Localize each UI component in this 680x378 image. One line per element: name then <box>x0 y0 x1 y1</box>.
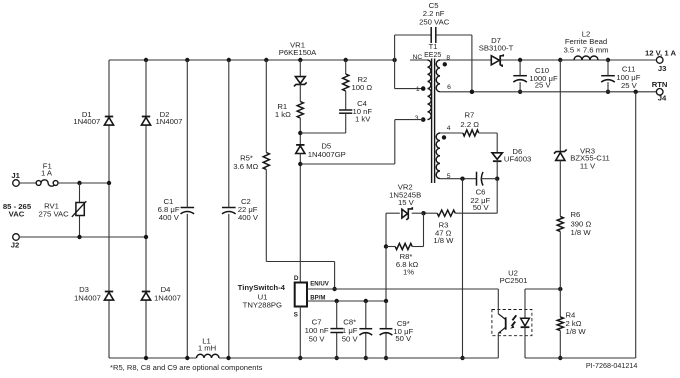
wire VR3 to R6 <box>559 160 561 216</box>
label D6 <box>504 147 531 163</box>
svg-text:4: 4 <box>447 125 451 132</box>
capacitor C10 <box>513 76 527 82</box>
wire RV1 top <box>79 183 81 203</box>
label pin 3 <box>415 115 419 122</box>
wire C5 right <box>436 35 474 94</box>
label C2 <box>238 197 259 222</box>
zener VR1 <box>294 77 307 87</box>
svg-text:25 V: 25 V <box>535 81 552 90</box>
wire R4 bottom <box>558 331 562 361</box>
label pin 1 <box>416 86 420 93</box>
svg-text:400 V: 400 V <box>238 213 259 222</box>
svg-text:R7: R7 <box>464 111 474 120</box>
wire opto collector <box>497 289 499 314</box>
svg-text:15 V: 15 V <box>398 198 415 207</box>
svg-text:3.5 × 7.6 mm: 3.5 × 7.6 mm <box>563 45 608 54</box>
wire RTN downline <box>635 92 637 358</box>
wire VR1 to R1 <box>299 84 301 101</box>
svg-text:100 Ω: 100 Ω <box>351 83 372 92</box>
diode D4 <box>141 292 150 301</box>
label input voltage <box>3 202 32 219</box>
svg-text:12 V, 1 A: 12 V, 1 A <box>645 48 677 57</box>
wire LED anode line <box>525 287 563 291</box>
label R5 <box>233 154 258 171</box>
node bias phase dot <box>442 135 446 139</box>
label C6 <box>470 187 490 212</box>
svg-text:SB3100-T: SB3100-T <box>479 44 514 53</box>
svg-text:3: 3 <box>415 115 419 122</box>
svg-text:1N4007: 1N4007 <box>74 294 101 303</box>
capacitor C5 <box>431 27 436 43</box>
wire pin8 to D7 <box>440 59 491 61</box>
diode D2 <box>141 117 150 126</box>
label C8 <box>342 317 359 343</box>
label U2 <box>500 268 528 285</box>
node secondary phase dot <box>443 62 447 66</box>
label pin 4 <box>447 125 451 132</box>
wire C1 branch <box>186 60 188 358</box>
label C7 <box>305 317 329 343</box>
wire C10 top <box>519 60 521 76</box>
wire R5 to EN/UV <box>266 170 337 292</box>
label U1 <box>238 283 286 310</box>
svg-text:UF4003: UF4003 <box>504 155 531 164</box>
wire C9 branch <box>384 301 388 360</box>
diode D3 <box>104 292 113 301</box>
svg-text:R6: R6 <box>571 210 581 219</box>
label R6 <box>571 210 592 237</box>
wire bias return <box>460 179 464 360</box>
capacitor C11 <box>601 76 615 82</box>
svg-text:RTN: RTN <box>652 80 668 89</box>
capacitor C4 <box>339 110 352 113</box>
wire VR1 top <box>299 60 301 77</box>
svg-text:S: S <box>294 311 299 318</box>
wire D2-D4 leg <box>145 60 147 358</box>
wire S pin <box>298 307 302 361</box>
svg-text:D: D <box>294 275 299 282</box>
svg-text:T1: T1 <box>429 42 438 51</box>
resistor R3 <box>437 210 455 216</box>
svg-text:1/8 W: 1/8 W <box>566 327 587 336</box>
wire bottom bus left <box>109 356 197 360</box>
wire pin4 to R7 <box>440 132 463 134</box>
ic U1 TNY288PG <box>295 283 307 307</box>
label D1 <box>73 110 100 126</box>
diode D7 SB3100-T <box>491 54 503 67</box>
capacitor C1 <box>181 208 195 214</box>
svg-text:1N4007: 1N4007 <box>154 294 181 303</box>
wire VR3 top <box>559 60 561 151</box>
wire bias node down <box>496 179 498 214</box>
node pin3 tap <box>395 117 426 122</box>
diode D6 UF4003 <box>492 153 502 161</box>
svg-text:1 kV: 1 kV <box>355 115 371 124</box>
label R2 <box>351 75 372 92</box>
label C10 <box>529 66 558 90</box>
wire BP/M line <box>307 299 388 303</box>
svg-text:VAC: VAC <box>9 210 25 219</box>
label R4 <box>566 311 587 337</box>
svg-text:6: 6 <box>447 84 451 91</box>
wire DC+ top bus <box>109 59 395 61</box>
svg-text:TNY288PG: TNY288PG <box>243 300 282 309</box>
zener VR2 <box>402 207 424 220</box>
capacitor C2 <box>222 208 236 214</box>
label C1 <box>158 197 180 222</box>
label R7 <box>460 111 479 130</box>
wire R8 left <box>386 246 395 248</box>
fuse F1 <box>36 180 58 186</box>
label VR3 <box>570 147 610 171</box>
wire RTN line <box>440 90 657 94</box>
zener VR3 <box>554 149 567 160</box>
label C4 <box>352 99 372 124</box>
svg-text:EN/UV: EN/UV <box>310 281 330 288</box>
svg-text:1%: 1% <box>403 268 414 277</box>
transformer T1 secondary winding <box>436 60 440 92</box>
resistor R8 <box>395 243 412 249</box>
wire R1 to node A <box>298 118 302 145</box>
label 12V output <box>645 48 677 57</box>
label L1 <box>198 336 216 352</box>
label J4 <box>658 94 667 103</box>
label RTN <box>652 80 668 89</box>
node R8 left <box>384 244 388 248</box>
wire pin5 line <box>440 177 477 181</box>
wire J2 line <box>19 235 148 239</box>
svg-text:P6KE150A: P6KE150A <box>279 48 317 57</box>
inductor L1 <box>197 354 220 358</box>
svg-text:1: 1 <box>416 86 420 93</box>
resistor R2 <box>343 60 349 91</box>
terminal J1 <box>11 171 20 186</box>
svg-text:1N4007: 1N4007 <box>156 117 183 126</box>
svg-text:2.2 Ω: 2.2 Ω <box>460 120 479 129</box>
wire R5 top <box>265 60 267 153</box>
wire J1 to fuse <box>19 182 36 184</box>
label D3 <box>74 285 101 302</box>
inductor L2 <box>560 56 608 60</box>
transformer T1 primary winding <box>428 60 432 120</box>
wire D1-D3 leg <box>108 60 110 358</box>
label C11 <box>616 64 640 90</box>
capacitor C8 <box>359 329 372 335</box>
svg-text:50 V: 50 V <box>342 334 359 343</box>
diode D5 <box>296 145 305 154</box>
terminal J2 <box>11 234 20 250</box>
svg-text:1 A: 1 A <box>41 169 53 178</box>
optocoupler U2 phototransistor <box>498 314 505 334</box>
wire C7 branch <box>335 301 339 360</box>
node top bus junction dots <box>144 58 397 62</box>
capacitor C6 <box>477 172 498 186</box>
optocoupler U2 LED <box>521 318 530 327</box>
svg-text:1N4007GP: 1N4007GP <box>308 150 346 159</box>
svg-text:EE25: EE25 <box>424 52 441 59</box>
wire D6 to bias node <box>495 161 499 181</box>
label pin 6 <box>447 84 451 91</box>
svg-text:1/8 W: 1/8 W <box>433 236 454 245</box>
diode D1 <box>104 117 113 126</box>
resistor R7 <box>463 130 479 136</box>
svg-text:PI-7268-041214: PI-7268-041214 <box>586 361 638 370</box>
wire fuse to bridge <box>58 181 111 185</box>
label D4 <box>154 285 181 302</box>
label C9 <box>393 319 413 343</box>
svg-text:275 VAC: 275 VAC <box>38 210 69 219</box>
svg-text:1 mH: 1 mH <box>198 344 216 353</box>
wire C2 branch <box>228 60 230 358</box>
label D7 <box>479 36 514 53</box>
wire R2 to C4 <box>345 91 347 110</box>
label pin 5 <box>447 173 451 180</box>
label pin 8 <box>446 54 450 61</box>
wire VR2 left <box>386 213 400 301</box>
label R1 <box>275 102 291 119</box>
label R8 <box>396 252 419 277</box>
terminal J4 <box>656 89 663 96</box>
wire C10 bottom <box>518 82 522 94</box>
svg-text:50 V: 50 V <box>395 334 412 343</box>
resistor R6 <box>557 217 563 232</box>
optocoupler U2 box <box>492 310 532 336</box>
label optional note <box>110 363 263 372</box>
svg-text:50 V: 50 V <box>309 334 326 343</box>
wire C8 branch <box>364 301 368 360</box>
wire C11 top <box>607 60 609 76</box>
wire bottom bus right <box>525 357 636 359</box>
label U1 pins <box>294 275 330 319</box>
label D5 <box>308 142 346 160</box>
varistor RV1 <box>72 201 87 217</box>
svg-text:J1: J1 <box>11 171 20 180</box>
optocoupler U2 arrow <box>510 315 516 328</box>
label D2 <box>156 110 183 126</box>
capacitor C7 <box>330 329 343 333</box>
label C5 <box>419 1 450 27</box>
wire R8 right <box>412 213 423 246</box>
resistor R5 <box>263 153 269 170</box>
wire RV1 bottom <box>79 216 81 238</box>
resistor R1 <box>297 102 303 119</box>
resistor R4 <box>557 289 563 331</box>
svg-text:J4: J4 <box>658 94 667 103</box>
wire NC stub <box>410 59 428 61</box>
wire opto LED bottom <box>524 327 526 358</box>
label VR1 <box>279 41 317 58</box>
wire R3 to VR2 <box>421 211 437 215</box>
svg-text:*R5, R8, C8 and C9 are optiona: *R5, R8, C8 and C9 are optional componen… <box>110 363 263 372</box>
svg-text:TinySwitch-4: TinySwitch-4 <box>238 283 286 292</box>
wire C4 to node A <box>300 113 345 133</box>
svg-text:1 kΩ: 1 kΩ <box>275 110 291 119</box>
transformer T1 bias winding <box>436 133 440 179</box>
wire R7 to D6 <box>479 133 498 153</box>
svg-text:50 V: 50 V <box>473 203 490 212</box>
label J3 <box>658 64 667 73</box>
wire node B <box>298 120 395 283</box>
wire bias to R3 <box>455 212 497 214</box>
wire R6 to node <box>559 232 561 290</box>
label F1 <box>41 161 53 177</box>
transformer T1 core <box>432 59 435 184</box>
wire opto emitter <box>497 333 499 358</box>
label RV1 <box>38 201 69 218</box>
svg-text:3.6 MΩ: 3.6 MΩ <box>233 162 258 171</box>
svg-text:J3: J3 <box>658 64 667 73</box>
label L2 <box>563 29 608 54</box>
svg-text:1N4007: 1N4007 <box>73 117 100 126</box>
svg-text:390 Ω: 390 Ω <box>571 219 592 228</box>
wire C11 bottom <box>606 82 610 94</box>
wire EN/UV line <box>307 288 498 290</box>
svg-text:J2: J2 <box>11 241 20 250</box>
wire pin1 link <box>395 60 426 91</box>
svg-text:250 VAC: 250 VAC <box>419 17 450 26</box>
wire bottom bus mid <box>219 356 498 360</box>
svg-text:1/8 W: 1/8 W <box>571 228 592 237</box>
svg-text:11 V: 11 V <box>580 162 596 171</box>
label VR2 <box>389 182 421 207</box>
svg-text:25 V: 25 V <box>621 81 638 90</box>
wire opto LED top <box>524 289 526 318</box>
label PI number <box>586 361 638 370</box>
svg-text:NC: NC <box>412 54 422 61</box>
wire D7 to output <box>500 58 656 62</box>
label NC <box>412 54 422 61</box>
label T1 <box>424 42 441 59</box>
wire C5 left <box>395 35 432 60</box>
label R3 <box>433 220 454 245</box>
svg-text:PC2501: PC2501 <box>500 276 528 285</box>
terminal J3 <box>656 57 663 64</box>
svg-text:400 V: 400 V <box>159 213 180 222</box>
capacitor C9 <box>380 329 393 335</box>
